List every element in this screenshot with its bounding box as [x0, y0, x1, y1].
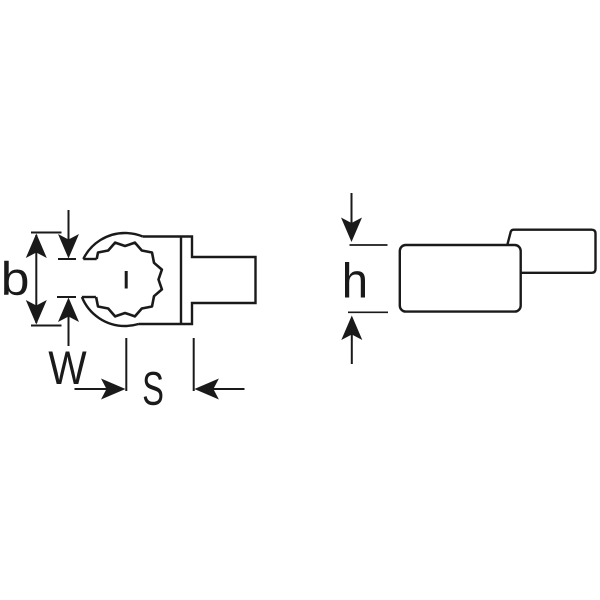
ring outer arc bottom — [82, 297, 139, 326]
b shaft — [35, 235, 37, 323]
W top shaft — [68, 210, 70, 240]
W bottom shaft — [68, 316, 70, 346]
dimension S — [75, 338, 245, 400]
h bottom arrow up — [341, 316, 362, 341]
S dim line right — [213, 388, 245, 390]
label S — [144, 372, 163, 406]
S arrow right — [101, 379, 126, 400]
b tick bottom — [31, 325, 62, 327]
label b — [4, 261, 27, 296]
cut face bottom — [82, 296, 96, 298]
12-point inner profile — [96, 243, 162, 317]
W top arrow down — [58, 234, 79, 259]
h bottom shaft — [351, 334, 353, 364]
dimension W arrows — [57, 210, 79, 346]
W bottom arrow up — [58, 298, 79, 323]
W tick bottom — [57, 296, 76, 298]
h tick bottom — [348, 311, 388, 313]
h top shaft — [351, 193, 353, 224]
cut face top — [83, 258, 96, 260]
h top arrow down — [341, 218, 362, 243]
ring outer arc top — [83, 233, 142, 259]
side view tang (behind) — [507, 230, 596, 273]
S dim line left — [75, 388, 108, 390]
label W — [49, 352, 87, 385]
dimension h — [341, 193, 388, 364]
joint line — [180, 237, 182, 325]
h tick top — [350, 244, 388, 246]
S arrow left — [194, 379, 219, 400]
body outline (flange + tang) — [139, 237, 256, 325]
S extension line right — [193, 338, 195, 391]
dimension b — [26, 233, 62, 326]
b arrow down — [26, 300, 47, 325]
S extension line left — [125, 338, 127, 391]
side view body — [400, 245, 521, 312]
label h — [345, 262, 365, 298]
b tick top — [31, 232, 62, 234]
center mark I — [125, 271, 128, 289]
b arrow up — [26, 234, 47, 259]
W tick top — [58, 258, 76, 260]
